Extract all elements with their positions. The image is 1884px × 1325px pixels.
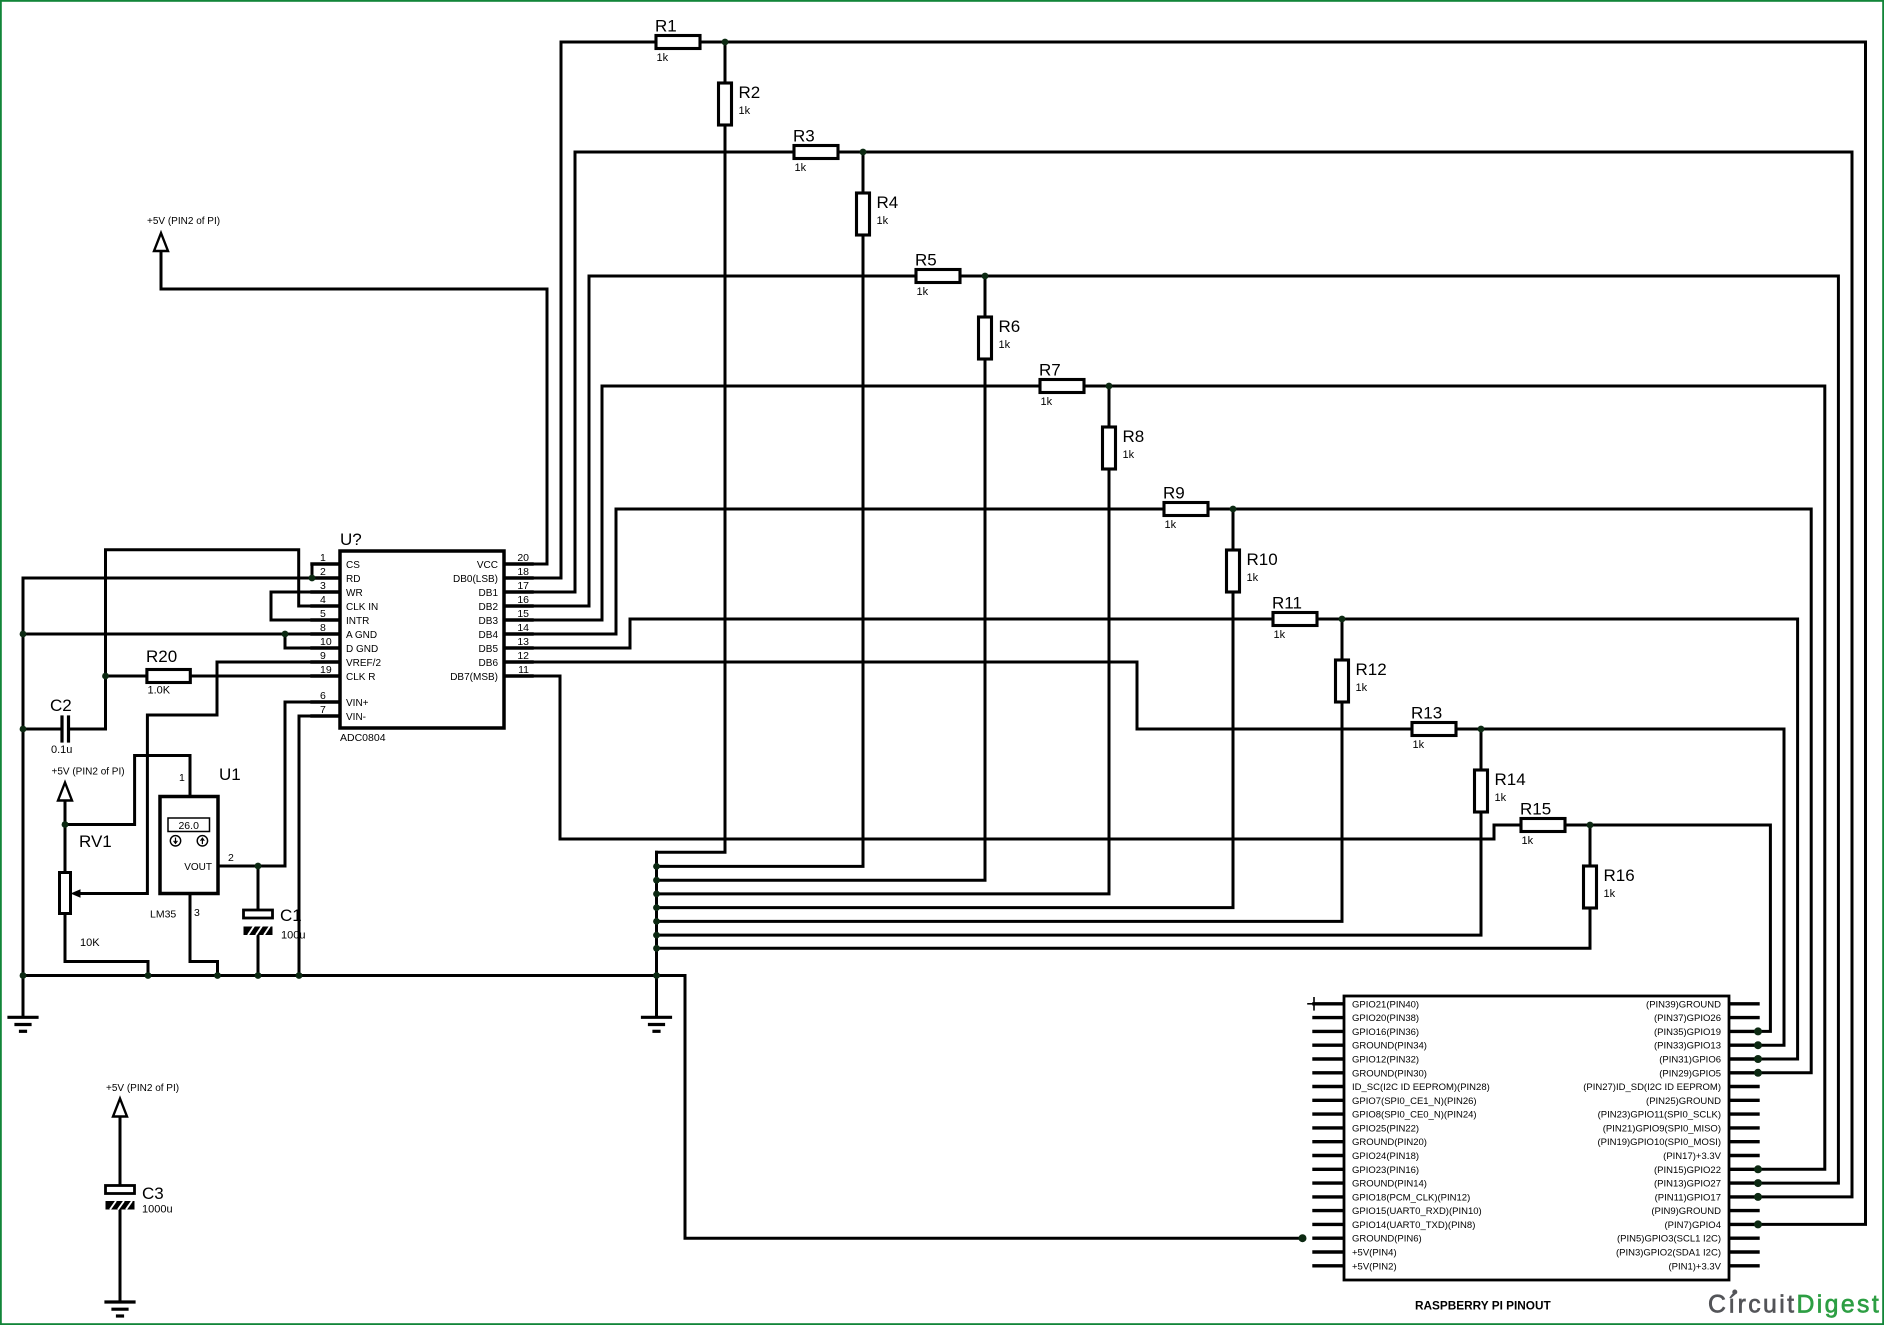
svg-text:DB1: DB1: [479, 588, 499, 599]
svg-text:1k: 1k: [1165, 519, 1177, 531]
svg-text:R13: R13: [1411, 704, 1442, 723]
svg-text:GPIO24(PIN18): GPIO24(PIN18): [1352, 1151, 1419, 1162]
svg-text:(PIN13)GPIO27: (PIN13)GPIO27: [1654, 1179, 1721, 1190]
svg-text:1k: 1k: [1123, 449, 1135, 461]
svg-text:GPIO15(UART0_RXD)(PIN10): GPIO15(UART0_RXD)(PIN10): [1352, 1206, 1482, 1217]
svg-text:2: 2: [228, 852, 234, 864]
svg-text:R5: R5: [915, 251, 937, 270]
svg-text:3: 3: [194, 907, 200, 919]
svg-text:R15: R15: [1520, 800, 1551, 819]
svg-text:20: 20: [517, 552, 529, 564]
svg-text:R12: R12: [1356, 660, 1387, 679]
svg-text:(PIN29)GPIO5: (PIN29)GPIO5: [1659, 1068, 1721, 1079]
svg-text:ID_SC(I2C ID EEPROM)(PIN28): ID_SC(I2C ID EEPROM)(PIN28): [1352, 1082, 1490, 1093]
svg-text:RV1: RV1: [79, 832, 112, 851]
svg-text:(PIN35)GPIO19: (PIN35)GPIO19: [1654, 1027, 1721, 1038]
svg-text:1k: 1k: [1413, 739, 1425, 751]
svg-text:LM35: LM35: [150, 909, 176, 921]
svg-text:6: 6: [320, 690, 326, 702]
svg-text:1k: 1k: [877, 215, 889, 227]
svg-text:10: 10: [320, 636, 332, 648]
svg-text:1: 1: [320, 552, 326, 564]
svg-text:CírcuitDigest: CírcuitDigest: [1708, 1292, 1881, 1319]
svg-text:1k: 1k: [1604, 888, 1616, 900]
svg-text:R9: R9: [1163, 484, 1185, 503]
svg-text:(PIN23)GPIO11(SPI0_SCLK): (PIN23)GPIO11(SPI0_SCLK): [1598, 1110, 1721, 1121]
svg-text:1000u: 1000u: [142, 1204, 173, 1216]
svg-text:(PIN27)ID_SD(I2C ID EEPROM): (PIN27)ID_SD(I2C ID EEPROM): [1583, 1082, 1721, 1093]
svg-text:RASPBERRY PI PINOUT: RASPBERRY PI PINOUT: [1415, 1299, 1551, 1313]
svg-text:4: 4: [320, 594, 326, 606]
svg-text:C2: C2: [50, 696, 72, 715]
svg-text:+5V (PIN2 of PI): +5V (PIN2 of PI): [106, 1083, 179, 1094]
svg-text:26.0: 26.0: [178, 820, 199, 832]
svg-text:1k: 1k: [1041, 396, 1053, 408]
svg-text:GPIO21(PIN40): GPIO21(PIN40): [1352, 999, 1419, 1010]
svg-text:(PIN39)GROUND: (PIN39)GROUND: [1646, 999, 1721, 1010]
svg-text:18: 18: [517, 566, 529, 578]
svg-text:GROUND(PIN6): GROUND(PIN6): [1352, 1234, 1422, 1245]
svg-text:(PIN21)GPIO9(SPI0_MISO): (PIN21)GPIO9(SPI0_MISO): [1603, 1123, 1721, 1134]
svg-text:1k: 1k: [1495, 792, 1507, 804]
svg-text:1k: 1k: [795, 162, 807, 174]
svg-text:(PIN37)GPIO26: (PIN37)GPIO26: [1654, 1013, 1721, 1024]
svg-text:DB7(MSB): DB7(MSB): [450, 672, 498, 683]
svg-text:0.1u: 0.1u: [51, 744, 72, 756]
svg-text:17: 17: [517, 580, 529, 592]
svg-text:GPIO8(SPI0_CE0_N)(PIN24): GPIO8(SPI0_CE0_N)(PIN24): [1352, 1110, 1477, 1121]
svg-text:2: 2: [320, 566, 326, 578]
svg-text:(PIN17)+3.3V: (PIN17)+3.3V: [1663, 1151, 1721, 1162]
svg-text:(PIN1)+3.3V: (PIN1)+3.3V: [1668, 1261, 1721, 1272]
svg-text:WR: WR: [346, 588, 363, 599]
svg-text:1k: 1k: [739, 105, 751, 117]
svg-text:100u: 100u: [281, 930, 305, 942]
svg-text:GROUND(PIN30): GROUND(PIN30): [1352, 1068, 1427, 1079]
svg-text:DB3: DB3: [479, 616, 499, 627]
svg-text:GPIO16(PIN36): GPIO16(PIN36): [1352, 1027, 1419, 1038]
svg-text:1k: 1k: [999, 339, 1011, 351]
svg-text:R14: R14: [1495, 770, 1526, 789]
svg-text:GPIO20(PIN38): GPIO20(PIN38): [1352, 1013, 1419, 1024]
svg-text:GPIO7(SPI0_CE1_N)(PIN26): GPIO7(SPI0_CE1_N)(PIN26): [1352, 1096, 1477, 1107]
svg-text:R11: R11: [1272, 594, 1302, 613]
svg-text:VIN-: VIN-: [346, 712, 366, 723]
svg-text:9: 9: [320, 650, 326, 662]
svg-text:(PIN31)GPIO6: (PIN31)GPIO6: [1659, 1055, 1721, 1066]
svg-text:VIN+: VIN+: [346, 698, 369, 709]
svg-text:16: 16: [517, 594, 529, 606]
svg-text:R7: R7: [1039, 361, 1061, 380]
svg-text:U?: U?: [340, 530, 362, 549]
svg-text:ADC0804: ADC0804: [340, 732, 386, 744]
svg-text:(PIN15)GPIO22: (PIN15)GPIO22: [1654, 1165, 1721, 1176]
svg-text:GROUND(PIN14): GROUND(PIN14): [1352, 1179, 1427, 1190]
svg-text:R16: R16: [1604, 866, 1635, 885]
svg-text:15: 15: [517, 608, 529, 620]
svg-text:R4: R4: [877, 193, 899, 212]
svg-text:1k: 1k: [1522, 835, 1534, 847]
svg-text:CLK R: CLK R: [346, 672, 375, 683]
svg-text:1: 1: [179, 772, 185, 784]
svg-text:1.0K: 1.0K: [148, 685, 171, 697]
svg-text:VREF/2: VREF/2: [346, 658, 381, 669]
svg-text:(PIN9)GROUND: (PIN9)GROUND: [1651, 1206, 1721, 1217]
svg-text:R3: R3: [793, 127, 815, 146]
svg-text:(PIN11)GPIO17: (PIN11)GPIO17: [1655, 1192, 1721, 1203]
svg-text:11: 11: [518, 664, 529, 676]
svg-text:RD: RD: [346, 574, 360, 585]
svg-text:R8: R8: [1123, 427, 1145, 446]
svg-text:8: 8: [320, 622, 326, 634]
svg-text:R2: R2: [739, 83, 761, 102]
svg-text:(PIN7)GPIO4: (PIN7)GPIO4: [1665, 1220, 1722, 1231]
svg-text:19: 19: [320, 664, 332, 676]
svg-text:GPIO23(PIN16): GPIO23(PIN16): [1352, 1165, 1419, 1176]
svg-text:1k: 1k: [1274, 629, 1286, 641]
svg-text:GROUND(PIN34): GROUND(PIN34): [1352, 1041, 1427, 1052]
svg-text:10K: 10K: [80, 937, 100, 949]
svg-text:+5V(PIN4): +5V(PIN4): [1352, 1248, 1397, 1259]
svg-text:GPIO18(PCM_CLK)(PIN12): GPIO18(PCM_CLK)(PIN12): [1352, 1192, 1470, 1203]
svg-text:(PIN33)GPIO13: (PIN33)GPIO13: [1654, 1041, 1721, 1052]
svg-text:GPIO25(PIN22): GPIO25(PIN22): [1352, 1123, 1419, 1134]
svg-text:1k: 1k: [1247, 572, 1259, 584]
svg-text:1k: 1k: [657, 52, 669, 64]
svg-text:VOUT: VOUT: [184, 862, 212, 873]
svg-text:A GND: A GND: [346, 630, 377, 641]
svg-text:(PIN5)GPIO3(SCL1 I2C): (PIN5)GPIO3(SCL1 I2C): [1617, 1234, 1721, 1245]
svg-text:14: 14: [517, 622, 529, 634]
svg-text:INTR: INTR: [346, 616, 369, 627]
svg-text:CLK IN: CLK IN: [346, 602, 378, 613]
svg-text:C1: C1: [280, 906, 302, 925]
svg-text:7: 7: [320, 704, 326, 716]
svg-text:1k: 1k: [917, 286, 929, 298]
svg-text:DB2: DB2: [479, 602, 499, 613]
svg-text:GROUND(PIN20): GROUND(PIN20): [1352, 1137, 1427, 1148]
svg-text:5: 5: [320, 608, 326, 620]
svg-text:R6: R6: [999, 317, 1021, 336]
svg-text:+5V(PIN2): +5V(PIN2): [1352, 1261, 1397, 1272]
svg-text:(PIN25)GROUND: (PIN25)GROUND: [1646, 1096, 1721, 1107]
svg-text:GPIO12(PIN32): GPIO12(PIN32): [1352, 1055, 1419, 1066]
svg-text:+5V (PIN2 of PI): +5V (PIN2 of PI): [52, 767, 125, 778]
svg-text:R20: R20: [146, 647, 177, 666]
svg-text:(PIN3)GPIO2(SDA1 I2C): (PIN3)GPIO2(SDA1 I2C): [1616, 1248, 1721, 1259]
svg-text:13: 13: [517, 636, 529, 648]
svg-text:12: 12: [517, 650, 529, 662]
svg-text:(PIN19)GPIO10(SPI0_MOSI): (PIN19)GPIO10(SPI0_MOSI): [1597, 1137, 1721, 1148]
svg-text:R10: R10: [1247, 550, 1278, 569]
svg-text:DB4: DB4: [479, 630, 499, 641]
svg-text:GPIO14(UART0_TXD)(PIN8): GPIO14(UART0_TXD)(PIN8): [1352, 1220, 1475, 1231]
svg-text:1k: 1k: [1356, 682, 1368, 694]
svg-text:C3: C3: [142, 1184, 164, 1203]
svg-text:DB5: DB5: [479, 644, 499, 655]
svg-text:D GND: D GND: [346, 644, 378, 655]
svg-text:3: 3: [320, 580, 326, 592]
svg-text:R1: R1: [655, 17, 677, 36]
svg-text:+5V (PIN2 of PI): +5V (PIN2 of PI): [147, 216, 220, 227]
svg-text:DB0(LSB): DB0(LSB): [453, 574, 498, 585]
svg-text:CS: CS: [346, 560, 360, 571]
svg-text:DB6: DB6: [479, 658, 499, 669]
svg-text:VCC: VCC: [477, 560, 498, 571]
svg-text:U1: U1: [219, 765, 241, 784]
